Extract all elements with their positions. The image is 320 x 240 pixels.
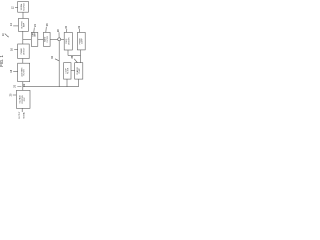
lead line numeral 24 — [33, 28, 36, 33]
wire L5 output — [21, 108, 23, 112]
svg-text:FIG. 1: FIG. 1 — [0, 55, 4, 67]
lead line numeral 34 — [55, 59, 59, 61]
wire L3-L4 — [22, 59, 24, 64]
wire S2 drop — [78, 79, 80, 87]
svg-text:FILTER: FILTER — [24, 69, 26, 76]
box M1 amplifier 24 — [31, 32, 38, 46]
text R2 — [78, 37, 83, 44]
wire R1 down — [67, 50, 69, 56]
box S2 charge pump 36 — [75, 63, 83, 79]
text L5 — [19, 94, 26, 103]
wire L2-L3 — [22, 31, 24, 44]
wire R2-S2 — [80, 50, 82, 63]
wire branch to M1 — [23, 38, 32, 40]
numeral 18 — [10, 69, 13, 72]
text L3 — [20, 47, 25, 55]
wire S1 drop — [66, 79, 68, 87]
text M1 — [32, 32, 37, 37]
text output label — [19, 111, 25, 119]
lead line numeral 20 — [13, 94, 17, 96]
svg-text:OUTPUT: OUTPUT — [19, 111, 21, 119]
numeral 22 bus — [23, 83, 26, 86]
numeral 34 — [51, 56, 54, 59]
wire L4-L5 — [22, 82, 24, 91]
svg-text:FILTER: FILTER — [47, 36, 49, 43]
wire R1 right — [68, 55, 81, 57]
lead line numeral 20 bus — [17, 85, 21, 87]
wire bottom bus — [23, 86, 79, 88]
wire mixer drop — [58, 41, 60, 87]
numeral 12 — [11, 6, 14, 9]
text S2 — [76, 66, 81, 75]
lead line numeral 32 — [79, 29, 81, 32]
box L3 phase detector 16 — [18, 44, 30, 59]
numeral 16 — [11, 48, 14, 51]
text S1 — [65, 67, 69, 74]
box R2 comparator 32 — [77, 32, 85, 50]
numeral 24 — [34, 24, 37, 27]
box L4 loop filter 18 — [18, 63, 30, 81]
lead line numeral 28 — [58, 32, 60, 37]
numeral 36 — [71, 55, 74, 58]
wire M2-mixer — [50, 38, 57, 40]
wire L1-L2 — [22, 12, 24, 18]
box M2 filter 26 — [43, 32, 50, 46]
svg-text:PUMP: PUMP — [79, 67, 81, 73]
mixer 28 — [58, 38, 61, 41]
box S1 loop filter 34 — [64, 63, 71, 79]
lead line numeral 36 — [74, 59, 77, 63]
wire M1-M2 — [38, 38, 44, 40]
numeral 14 — [10, 23, 13, 26]
numeral 32 — [78, 25, 81, 28]
numeral 26 — [46, 23, 49, 26]
text R1 — [66, 37, 70, 45]
wire S1-S2 — [71, 70, 75, 72]
box L5 VCO 20 — [16, 90, 30, 108]
arrow numeral 10 — [5, 34, 9, 38]
numeral 20 bus left — [13, 84, 16, 87]
box L2 buffer 14 — [18, 19, 28, 32]
box R1 divider 30 — [64, 32, 72, 50]
svg-text:SIGNAL: SIGNAL — [22, 112, 25, 119]
label FIG. 1 — [0, 55, 4, 67]
svg-text:COMP: COMP — [82, 38, 84, 44]
text M2 — [44, 36, 49, 43]
numeral 28 — [57, 29, 60, 32]
svg-text:SOURCE: SOURCE — [23, 2, 25, 11]
text L4 — [20, 67, 25, 77]
svg-text:OSC: OSC — [24, 97, 26, 102]
svg-text:FILTER: FILTER — [68, 67, 70, 74]
box L1 oscillator 12 — [18, 2, 29, 13]
lead line numeral 26 — [45, 27, 48, 33]
svg-text:DIVIDER: DIVIDER — [68, 37, 70, 45]
lead line numeral 18 — [13, 70, 18, 72]
text L2 — [21, 21, 25, 29]
text L1 — [20, 2, 25, 11]
numeral 20 — [10, 93, 13, 96]
svg-text:20: 20 — [13, 84, 16, 87]
lead line numeral 30 — [66, 29, 68, 32]
lead line numeral 14 — [13, 25, 18, 27]
lead line numeral 12 — [15, 7, 18, 9]
numeral 10 — [2, 33, 5, 36]
svg-text:DETECT: DETECT — [23, 47, 25, 55]
numeral 30 — [65, 25, 68, 28]
wire mixer-R1 — [61, 38, 64, 40]
lead line numeral 16 — [14, 49, 18, 51]
